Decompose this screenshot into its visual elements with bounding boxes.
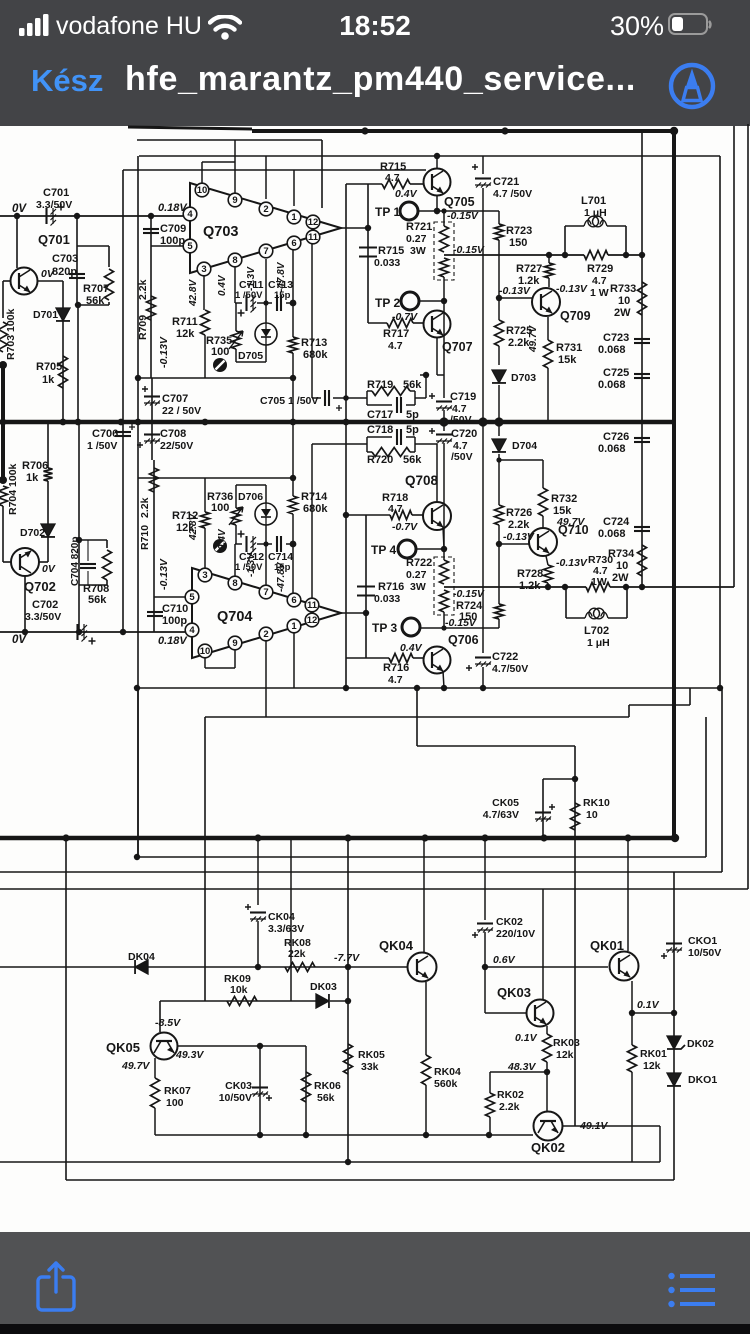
resistor R726 2.2k — [495, 505, 504, 525]
resistor R725 2.2k — [495, 320, 504, 346]
transistor Q708 — [423, 502, 451, 530]
share icon — [34, 1260, 78, 1314]
resistor R720 — [372, 448, 410, 457]
resistor R721 0.27 3W in dashed box — [434, 222, 454, 280]
wire: 48.3V rail y1072 — [490, 1071, 547, 1073]
wire: RK02 drop — [489, 1072, 491, 1093]
wire: Q706 collector down to y688 — [443, 671, 444, 688]
svg-text:C724: C724 — [603, 516, 630, 528]
capacitor C707 electrolytic — [144, 395, 160, 397]
pins of Q704 bottom edge — [198, 644, 212, 658]
resistor R727 1.2k — [548, 255, 550, 263]
wire: x350 drop from RK05 — [347, 838, 349, 1162]
wire: thick stub left x3 lower — [1, 422, 5, 482]
svg-text:4.7: 4.7 — [385, 172, 400, 184]
wire: top thick supply rail — [252, 129, 675, 133]
svg-text:8: 8 — [232, 255, 237, 266]
svg-text:R716: R716 — [378, 581, 404, 593]
svg-text:12k: 12k — [643, 1060, 661, 1072]
diode DK03 — [316, 994, 329, 1008]
capacitor C717 — [396, 397, 398, 413]
svg-text:0.1V: 0.1V — [637, 999, 660, 1011]
svg-text:2.2k: 2.2k — [499, 1101, 520, 1113]
resistor R714 — [289, 496, 298, 514]
svg-text:1: 1 — [291, 621, 297, 632]
wire: C707 column x152 upper — [151, 378, 153, 422]
svg-text:49.3V: 49.3V — [175, 1049, 204, 1061]
svg-text:CK04: CK04 — [268, 911, 295, 923]
svg-text:100: 100 — [166, 1097, 184, 1109]
svg-text:QK03: QK03 — [497, 985, 531, 1000]
wire: pin1 stub down lower — [293, 633, 295, 688]
resistor R705 — [59, 356, 68, 388]
capacitor C709 — [143, 228, 159, 230]
wire: pin1 stub up — [293, 170, 295, 206]
svg-text:0.27: 0.27 — [406, 569, 427, 581]
wire: TP2 rail y301 — [419, 300, 444, 302]
svg-text:-0.7V: -0.7V — [392, 311, 418, 323]
svg-text:Q707: Q707 — [442, 340, 473, 354]
wire: R718 wire y515 — [346, 514, 390, 516]
svg-text:1 μH: 1 μH — [587, 637, 610, 649]
svg-text:R729: R729 — [587, 263, 613, 275]
capacitor C705 — [321, 392, 333, 404]
transistor QK02 — [534, 1112, 563, 1141]
svg-text:4.7: 4.7 — [388, 340, 403, 352]
svg-text:-0.13V: -0.13V — [556, 557, 588, 569]
svg-text:R726: R726 — [506, 507, 532, 519]
node on top rail — [361, 127, 368, 134]
svg-text:C708: C708 — [160, 428, 186, 440]
wire: Q705 emitter to TP1 rail — [436, 196, 438, 211]
svg-text:0.18V: 0.18V — [158, 635, 188, 647]
svg-text:4.7 /50V: 4.7 /50V — [493, 188, 532, 200]
svg-text:1 W: 1 W — [590, 287, 609, 299]
wire: apex Q703 to driver riser — [341, 227, 368, 229]
svg-text:R709: R709 — [137, 315, 149, 340]
list icon — [668, 1272, 718, 1308]
resistor R716 0.033 emitter bars — [357, 585, 375, 587]
svg-text:0.033: 0.033 — [374, 257, 400, 269]
resistor RK08 22k — [285, 963, 315, 972]
svg-text:9: 9 — [232, 195, 237, 206]
svg-text:0.033: 0.033 — [374, 593, 400, 605]
svg-text:Q703: Q703 — [203, 224, 238, 240]
transistor QK04 — [408, 953, 437, 982]
wire: left vertical x123 (input riser C706) — [122, 170, 124, 632]
transistor QK05 — [151, 1033, 178, 1060]
wire: Q709 base rail — [499, 297, 532, 299]
transistor Q701 — [11, 268, 38, 295]
svg-text:TP 2: TP 2 — [375, 296, 400, 310]
wire: QK01 emitter drop + RK01 — [631, 981, 633, 1045]
resistor R728 1.2k — [546, 556, 548, 565]
wire: thick bottom supply rail — [0, 836, 677, 841]
svg-text:12: 12 — [307, 615, 318, 626]
svg-text:CK02: CK02 — [496, 916, 523, 928]
wire: pin7 column lower through cap row — [265, 525, 267, 585]
svg-text:CK03: CK03 — [225, 1080, 252, 1092]
svg-text:C721: C721 — [493, 176, 519, 188]
capacitor CK04 electrolytic — [257, 838, 259, 905]
wire: QK02 collector from 48.3V node — [546, 1072, 548, 1111]
node on mid rail — [0, 419, 6, 426]
svg-text:10: 10 — [586, 809, 598, 821]
svg-text:C704 820p: C704 820p — [70, 537, 81, 586]
wire: bias feed x575 drop — [574, 746, 576, 1126]
svg-text:680k: 680k — [303, 349, 328, 361]
svg-text:R720: R720 — [367, 454, 393, 466]
svg-text:10k: 10k — [230, 984, 248, 996]
svg-text:-1.3V: -1.3V — [246, 552, 257, 577]
wire: QK03 base jog — [485, 1012, 526, 1014]
svg-text:4.7: 4.7 — [388, 503, 403, 515]
svg-text:/50V: /50V — [450, 414, 472, 426]
resistor R712 — [201, 512, 210, 528]
svg-text:4.7/50V: 4.7/50V — [492, 663, 528, 675]
wire: Q708 collector up — [436, 444, 438, 502]
svg-text:R716: R716 — [383, 662, 409, 674]
svg-text:-0.13V: -0.13V — [158, 336, 170, 368]
svg-text:RK02: RK02 — [497, 1089, 524, 1101]
wire: TP3 rail y628 — [419, 627, 499, 629]
svg-text:220/10V: 220/10V — [496, 928, 535, 940]
capacitor C702 electrolytic series — [76, 624, 78, 640]
svg-text:RK01: RK01 — [640, 1048, 667, 1060]
svg-text:Q702: Q702 — [24, 579, 56, 594]
wire: QK04 emitter drop + RK04 — [425, 982, 427, 1055]
svg-text:2W: 2W — [612, 572, 629, 584]
svg-text:11: 11 — [307, 600, 318, 611]
svg-text:0V: 0V — [12, 634, 27, 646]
wire: x706 vertical — [705, 717, 707, 857]
svg-text:Q709: Q709 — [560, 309, 591, 323]
capacitor C723 — [634, 338, 650, 340]
svg-text:0.6V: 0.6V — [493, 954, 516, 966]
variable resistor R735 — [232, 331, 241, 349]
capacitor C706 (series in x123 riser) — [115, 431, 131, 433]
wire: C703/R707 column x78 — [76, 216, 78, 305]
wire: staircase y717 — [205, 716, 629, 718]
svg-text:4: 4 — [189, 625, 195, 636]
svg-text:C709: C709 — [160, 223, 186, 235]
wire: x674 CK01/diode column — [673, 872, 675, 1180]
svg-text:0.4V: 0.4V — [395, 188, 418, 200]
resistor R706 — [44, 468, 53, 481]
resistor R716 4.7 — [389, 654, 413, 663]
svg-text:D703: D703 — [511, 372, 536, 384]
capacitor C726 — [634, 437, 650, 439]
svg-text:RK05: RK05 — [358, 1049, 385, 1061]
svg-text:9: 9 — [232, 638, 237, 649]
svg-text:C702: C702 — [32, 599, 58, 611]
svg-text:0V: 0V — [12, 203, 27, 215]
resistor RK10 — [571, 803, 580, 830]
wire: Q702 collector drop — [24, 576, 26, 632]
transistor Q705 — [424, 169, 451, 196]
wire: combo R720/C718 frame — [366, 437, 368, 452]
svg-text:100p: 100p — [162, 615, 187, 627]
capacitor CK03 electrolytic — [252, 1086, 268, 1088]
wire: C719 riser — [443, 301, 445, 398]
svg-text:5: 5 — [187, 241, 193, 252]
variable resistor R736 — [232, 508, 241, 525]
svg-text:150: 150 — [459, 611, 477, 623]
wire: R713 bottom to feedback line — [292, 353, 294, 378]
svg-text:10/50V: 10/50V — [219, 1092, 252, 1104]
capacitor C710 — [147, 611, 163, 613]
svg-text:12k: 12k — [556, 1049, 574, 1061]
svg-text:C719: C719 — [450, 391, 476, 403]
adjust screw upper — [213, 358, 227, 372]
svg-text:R717: R717 — [383, 328, 409, 340]
svg-text:C703: C703 — [52, 253, 78, 265]
wire: x734 vertical to lower output — [733, 126, 735, 587]
wire: Q702 base to R704 — [3, 561, 11, 563]
wire: Q707 collector down — [436, 338, 438, 375]
svg-text:11: 11 — [308, 232, 319, 243]
wire: thick right supply drop — [672, 129, 676, 838]
svg-text:5p: 5p — [406, 409, 419, 421]
svg-text:-0.15V: -0.15V — [447, 210, 479, 222]
svg-text:R719: R719 — [367, 379, 393, 391]
wire: pin5 stub — [151, 245, 184, 247]
svg-text:2.2k: 2.2k — [508, 519, 530, 531]
svg-text:10/50V: 10/50V — [688, 947, 721, 959]
svg-text:3.3/63V: 3.3/63V — [268, 923, 304, 935]
wire: feedback rect top y140 — [137, 139, 322, 141]
wire: long riser x346 — [345, 184, 347, 688]
wire: feedback line y378 — [138, 377, 293, 379]
wire: R712 top to feedback line — [204, 478, 206, 512]
svg-text:150: 150 — [509, 237, 527, 249]
transistor Q707 — [424, 311, 451, 338]
resistor R717 4.7 — [387, 319, 413, 328]
capacitor C721 electrolytic — [482, 156, 484, 174]
wire: x722 vertical lower — [721, 688, 723, 872]
svg-text:R711: R711 — [172, 316, 198, 328]
wire: bottom rail P y1162 — [0, 1161, 660, 1163]
op-amp Q703 — [190, 183, 341, 273]
svg-text:1.2k: 1.2k — [519, 580, 541, 592]
svg-text:DK02: DK02 — [687, 1038, 714, 1050]
capacitor C712 electrolytic — [245, 536, 247, 552]
wire: feedback rect y156 — [139, 155, 720, 157]
svg-text:6: 6 — [291, 595, 296, 606]
svg-text:-0.7V: -0.7V — [392, 521, 418, 533]
capacitor CK01 electrolytic — [666, 942, 682, 944]
wire: R732 top row y460 — [499, 459, 543, 461]
diode D702 — [41, 524, 55, 537]
svg-text:0.27: 0.27 — [406, 233, 427, 245]
transistor QK03 — [527, 1000, 554, 1027]
svg-text:R707: R707 — [83, 283, 109, 295]
svg-text:-47.8V: -47.8V — [276, 561, 287, 592]
wire: lower input rail y632 — [0, 631, 185, 633]
svg-text:C710: C710 — [162, 603, 188, 615]
svg-text:Q705: Q705 — [444, 195, 475, 209]
svg-text:-47.8V: -47.8V — [276, 261, 287, 292]
svg-text:10: 10 — [616, 560, 628, 572]
resistor R713 — [289, 337, 298, 353]
svg-text:42.8V: 42.8V — [188, 279, 199, 307]
svg-text:C726: C726 — [603, 431, 629, 443]
wire: x66 left drop — [65, 838, 67, 1180]
pins of Q704 left edge — [185, 590, 199, 604]
transistor Q710 — [529, 528, 557, 556]
svg-text:R734: R734 — [608, 548, 635, 560]
wire: rail line1 y857 — [137, 856, 706, 858]
svg-text:DK03: DK03 — [310, 981, 337, 993]
svg-text:7: 7 — [263, 587, 268, 598]
svg-text:/50V: /50V — [451, 451, 473, 463]
svg-text:C706: C706 — [92, 428, 118, 440]
wire: apex Q704 to driver riser — [341, 612, 366, 614]
resistor R730 4.7 1W — [586, 583, 610, 592]
wire: C708 column x152 lower — [151, 422, 153, 460]
svg-text:C717: C717 — [367, 409, 393, 421]
capacitor C724 — [634, 526, 650, 528]
resistor R731 15k — [547, 317, 549, 340]
wire: left vertical x138 — [137, 156, 139, 857]
wire: combo riser x426 — [425, 375, 427, 398]
svg-text:C723: C723 — [603, 332, 629, 344]
resistor R722 0.27 3W in dashed box — [434, 557, 454, 615]
wifi icon — [208, 15, 242, 40]
svg-text:100: 100 — [211, 346, 229, 358]
svg-text:DKO1: DKO1 — [688, 1074, 717, 1086]
svg-text:Q701: Q701 — [38, 232, 70, 247]
svg-text:5: 5 — [189, 592, 195, 603]
svg-text:49.7V: 49.7V — [121, 1060, 150, 1072]
svg-text:8: 8 — [232, 578, 237, 589]
wire: output rail y255 — [444, 254, 584, 256]
resistor R710 rotated — [150, 468, 159, 492]
svg-text:R705: R705 — [36, 361, 62, 373]
wire: base rail y967 — [0, 966, 408, 968]
svg-text:0.068: 0.068 — [598, 528, 626, 540]
resistor R724 150 — [498, 544, 500, 604]
wire: rail line2 y872 — [0, 871, 722, 873]
svg-text:R723: R723 — [506, 225, 532, 237]
wire: x720 vertical — [719, 156, 721, 688]
svg-text:-7.7V: -7.7V — [334, 952, 360, 964]
svg-text:4.7: 4.7 — [388, 674, 403, 686]
wire: pin8 column to cap row upper — [234, 267, 236, 303]
svg-text:2W: 2W — [614, 307, 631, 319]
wire: pin10-9 link above Q703 — [202, 161, 235, 163]
wire: pin11 column lower to combo — [311, 444, 313, 598]
wire: thick stub left x3 upper — [1, 362, 5, 422]
svg-text:22 / 50V: 22 / 50V — [162, 405, 201, 417]
wire: x138 lower segment — [137, 688, 139, 857]
svg-text:RK06: RK06 — [314, 1080, 341, 1092]
svg-text:7: 7 — [263, 246, 268, 257]
resistor R718 4.7 — [390, 511, 412, 520]
transistor Q706 — [424, 647, 451, 674]
svg-text:3W: 3W — [410, 245, 426, 257]
svg-text:12k: 12k — [176, 328, 195, 340]
node on bottom rail — [62, 834, 69, 841]
svg-text:100p: 100p — [160, 235, 185, 247]
svg-text:3W: 3W — [410, 581, 426, 593]
svg-text:12: 12 — [308, 217, 319, 228]
svg-text:CKO1: CKO1 — [688, 935, 717, 947]
wire: pin2 stub up — [265, 156, 267, 199]
svg-text:1k: 1k — [26, 472, 39, 484]
svg-text:33k: 33k — [361, 1061, 379, 1073]
wire: pin10-9 link below Q704 — [204, 658, 206, 668]
diode DK04 — [135, 960, 148, 974]
svg-text:10: 10 — [197, 185, 208, 196]
svg-text:D704: D704 — [512, 440, 537, 452]
wire: pin5 stub lower — [154, 596, 186, 598]
svg-text:3.3/50V: 3.3/50V — [36, 199, 72, 211]
wire: QK02 emitter to rail P riser — [562, 1125, 660, 1127]
resistor R715 4.7 — [382, 180, 410, 189]
svg-text:49.7V: 49.7V — [556, 516, 585, 528]
svg-text:TP 3: TP 3 — [372, 621, 397, 635]
wire: QK03 collector riser — [542, 889, 544, 1000]
svg-text:1W: 1W — [591, 576, 607, 588]
transistor QK01 — [610, 952, 639, 981]
signal bars icon — [19, 14, 53, 38]
wire: R717 wire y323 — [368, 322, 387, 324]
svg-text:R721: R721 — [406, 221, 432, 233]
svg-text:D701: D701 — [33, 309, 58, 321]
wire: R706/D702 column x48 — [47, 422, 49, 468]
wire: RK06 drop — [305, 1046, 307, 1135]
wire: 0.1V rail y1013 — [632, 1012, 674, 1014]
svg-text:4: 4 — [187, 209, 193, 220]
capacitor C719 electrolytic — [436, 400, 452, 402]
capacitor C722 electrolytic — [482, 422, 484, 653]
capacitor C708 electrolytic — [144, 433, 160, 435]
svg-text:15k: 15k — [558, 354, 577, 366]
svg-text:2: 2 — [263, 204, 268, 215]
bottom toolbar — [0, 1232, 750, 1324]
wire: R716 wire y658 — [346, 657, 389, 659]
wire: R714 top to feedback line — [292, 478, 294, 496]
svg-text:1.2k: 1.2k — [518, 275, 540, 287]
wire: RK09 rail y1001 — [160, 1000, 316, 1002]
svg-text:3.3/50V: 3.3/50V — [25, 611, 61, 623]
wire: cap row y544 lower — [235, 543, 242, 545]
zener diode DK02 — [667, 1036, 681, 1049]
svg-text:0.068: 0.068 — [598, 443, 626, 455]
svg-text:QK02: QK02 — [531, 1140, 565, 1155]
svg-text:2: 2 — [263, 629, 268, 640]
svg-text:R732: R732 — [551, 493, 577, 505]
capacitor C711 electrolytic — [245, 295, 247, 311]
svg-text:R728: R728 — [517, 568, 543, 580]
wire: pin8 column lower — [234, 544, 236, 576]
svg-text:0.4V: 0.4V — [217, 274, 228, 296]
capacitor C720 electrolytic — [443, 422, 445, 431]
svg-text:D702: D702 — [20, 527, 45, 539]
wire: QK01 collector riser — [627, 838, 629, 951]
battery icon — [668, 13, 714, 37]
svg-text:22k: 22k — [288, 948, 306, 960]
svg-text:10: 10 — [618, 295, 630, 307]
wire: D701 R705 column x63 — [38, 280, 63, 282]
svg-text:1k: 1k — [42, 374, 55, 386]
svg-text:C705 1 /50V: C705 1 /50V — [260, 395, 318, 407]
LED D706 — [255, 503, 277, 525]
wire: output rail y587 lower — [444, 586, 586, 588]
resistor R732 15k — [542, 460, 544, 488]
wire: pin3 column upper — [203, 276, 205, 310]
